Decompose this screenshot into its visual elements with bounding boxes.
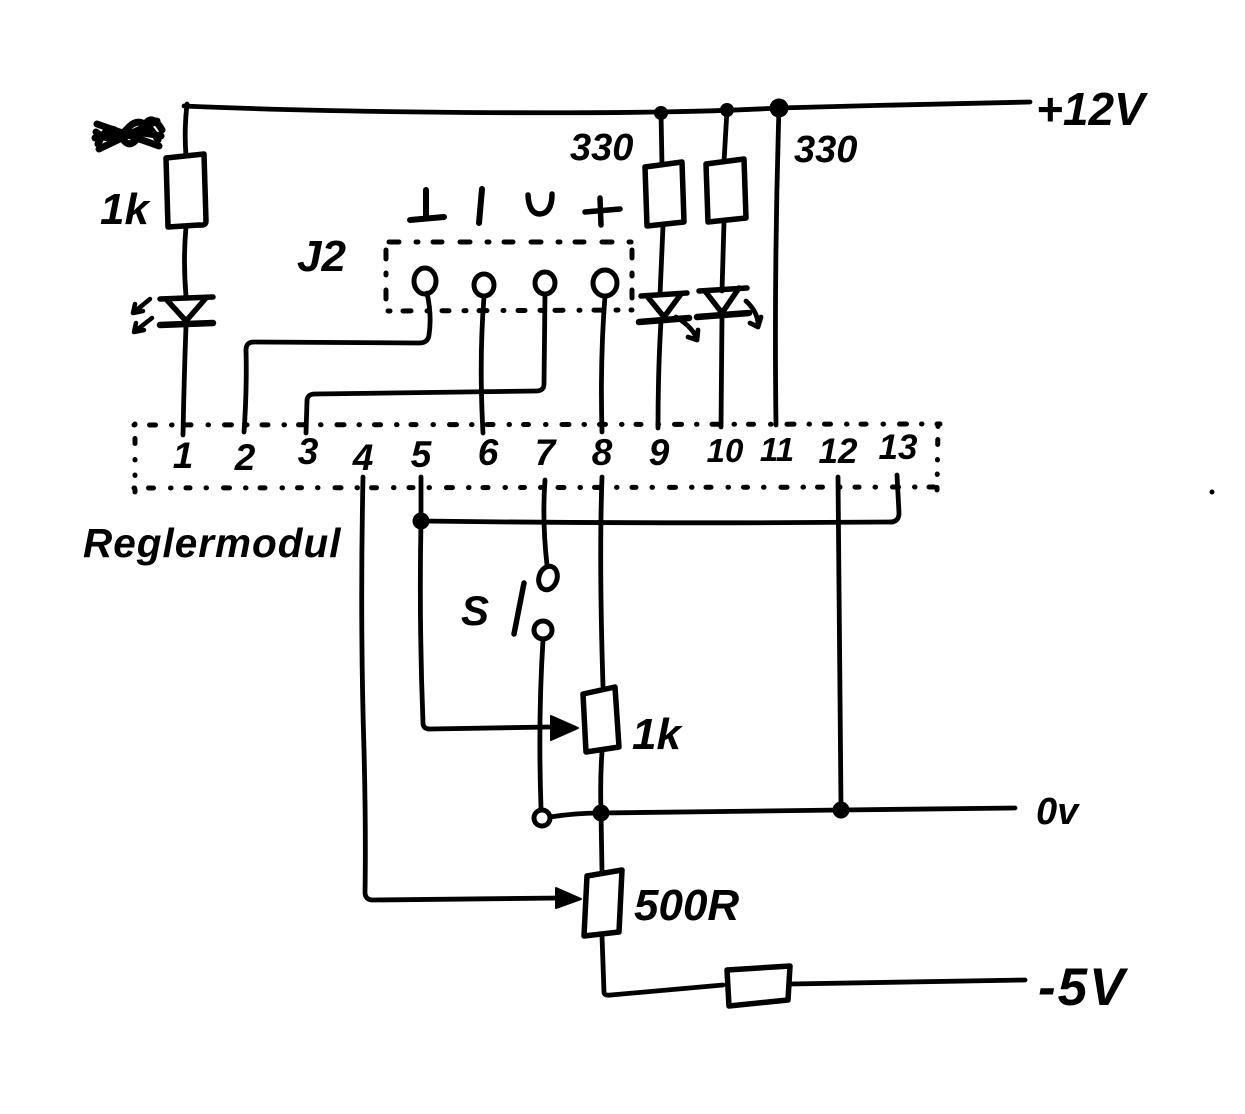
J2 pin label I: [479, 189, 482, 223]
wire pin 8 down to potentiometer P1: [601, 477, 603, 686]
wire R3 to LED D3: [722, 222, 724, 291]
svg-text:S: S: [461, 587, 489, 634]
resistor R3 body: [706, 159, 746, 222]
svg-text:2: 2: [234, 437, 256, 478]
wire R1 to D1: [185, 227, 187, 296]
svg-text:7: 7: [535, 432, 558, 473]
wire D1 to pin 1: [183, 326, 186, 435]
wire pin 12 down to 0V: [838, 477, 841, 806]
wire switch bottom to 0V: [540, 640, 543, 808]
J2 ground pin label: [410, 190, 444, 220]
wire 0V rail: [550, 808, 1015, 817]
J2 pin circle 2: [474, 274, 494, 296]
potentiometer P2 500R body: [584, 870, 622, 936]
wire R2 to LED D2: [660, 226, 663, 295]
switch S bottom contact: [534, 621, 552, 639]
wire +12V rail: [184, 102, 1030, 113]
switch wire end loop on 0V: [534, 810, 550, 826]
LED D2 light arrow: [676, 317, 698, 340]
wire 0V junction down to potentiometer P2: [601, 813, 602, 871]
svg-text:500R: 500R: [634, 881, 739, 930]
LED D1: [160, 297, 213, 325]
node junction pin5 bus: [413, 513, 430, 530]
svg-text:330: 330: [570, 127, 633, 169]
resistor R1 body: [166, 154, 206, 227]
svg-text:11: 11: [760, 431, 794, 468]
LED D1 light arrows: [133, 299, 152, 332]
node junction J-A on +12V: [654, 106, 668, 120]
J2 pin label +: [585, 198, 620, 225]
svg-text:6: 6: [478, 432, 499, 473]
svg-text:10: 10: [707, 432, 744, 469]
wire +12V to R1: [185, 104, 187, 156]
node junction pin12/0V: [833, 802, 850, 819]
node junction J-B on +12V: [720, 103, 734, 117]
J2 pin circle 3: [535, 272, 555, 294]
wire P2 to -5V rail: [602, 936, 723, 995]
wire pin 5 down to junction: [419, 477, 424, 519]
wire D3 to pin 10: [721, 316, 722, 427]
svg-text:5: 5: [411, 434, 433, 475]
wire R4 to -5V label: [790, 980, 1025, 984]
wire bus pin5 to pin13: [421, 521, 893, 523]
svg-text:12: 12: [819, 432, 858, 471]
wire D2 to pin 9: [658, 321, 661, 428]
wire +12V junction B to R3: [724, 110, 727, 162]
wire +12V junction A to R2: [661, 113, 662, 165]
node junction P1/0V: [593, 805, 610, 822]
arrowhead 500R wiper: [556, 888, 581, 908]
svg-text:8: 8: [592, 432, 613, 473]
resistor R2 body: [645, 162, 684, 226]
LED D2: [639, 293, 689, 322]
J2 pin label U: [528, 194, 552, 214]
svg-text:9: 9: [649, 432, 670, 473]
connector Reglermodul dotted outline: [134, 424, 940, 492]
svg-text:330: 330: [794, 129, 857, 171]
arrowhead 1k wiper: [551, 716, 578, 740]
J2 pin circle 4: [593, 270, 617, 296]
svg-text:1k: 1k: [632, 710, 683, 759]
potentiometer P1 1k body: [583, 687, 619, 752]
switch S top contact: [536, 564, 561, 592]
svg-text:1k: 1k: [100, 185, 151, 234]
stray ink dot right margin: [1210, 490, 1215, 495]
connector J2 dashed outline: [389, 240, 632, 245]
node junction J-C on +12V: [770, 99, 789, 118]
svg-text:J2: J2: [297, 232, 346, 281]
LED D3 light arrow: [746, 301, 761, 327]
svg-text:4: 4: [352, 437, 374, 478]
wire J2 pin4 to connector pin 8: [601, 296, 605, 432]
wire pin 4 down and to 500R wiper: [362, 477, 560, 900]
wire pin 7 to switch top contact: [544, 480, 547, 565]
wire +12V junction C to pin 11: [775, 108, 779, 425]
crossed-out 330 label: [95, 120, 162, 149]
svg-text:0v: 0v: [1036, 791, 1080, 833]
wire J2 pin1 to connector pin 2: [244, 293, 430, 432]
resistor R4 body: [727, 966, 790, 1006]
svg-text:Reglermodul: Reglermodul: [83, 520, 342, 566]
LED D3: [697, 288, 749, 317]
svg-text:1: 1: [173, 435, 194, 476]
wire J2 pin3 to connector pin 3: [306, 294, 545, 433]
wire pin 13 elbow to bus: [890, 475, 899, 522]
svg-text:3: 3: [298, 431, 319, 472]
J2 pin circle 1: [414, 268, 436, 294]
switch S lever: [514, 583, 524, 634]
wire J2 pin2 to connector pin 6: [481, 297, 484, 433]
wire pin5 junction down to 1k wiper arrow: [420, 521, 550, 729]
svg-text:-5V: -5V: [1038, 958, 1129, 1017]
svg-text:13: 13: [879, 428, 918, 467]
wire P1 to 0V junction: [601, 752, 602, 811]
svg-text:+12V: +12V: [1036, 83, 1148, 135]
